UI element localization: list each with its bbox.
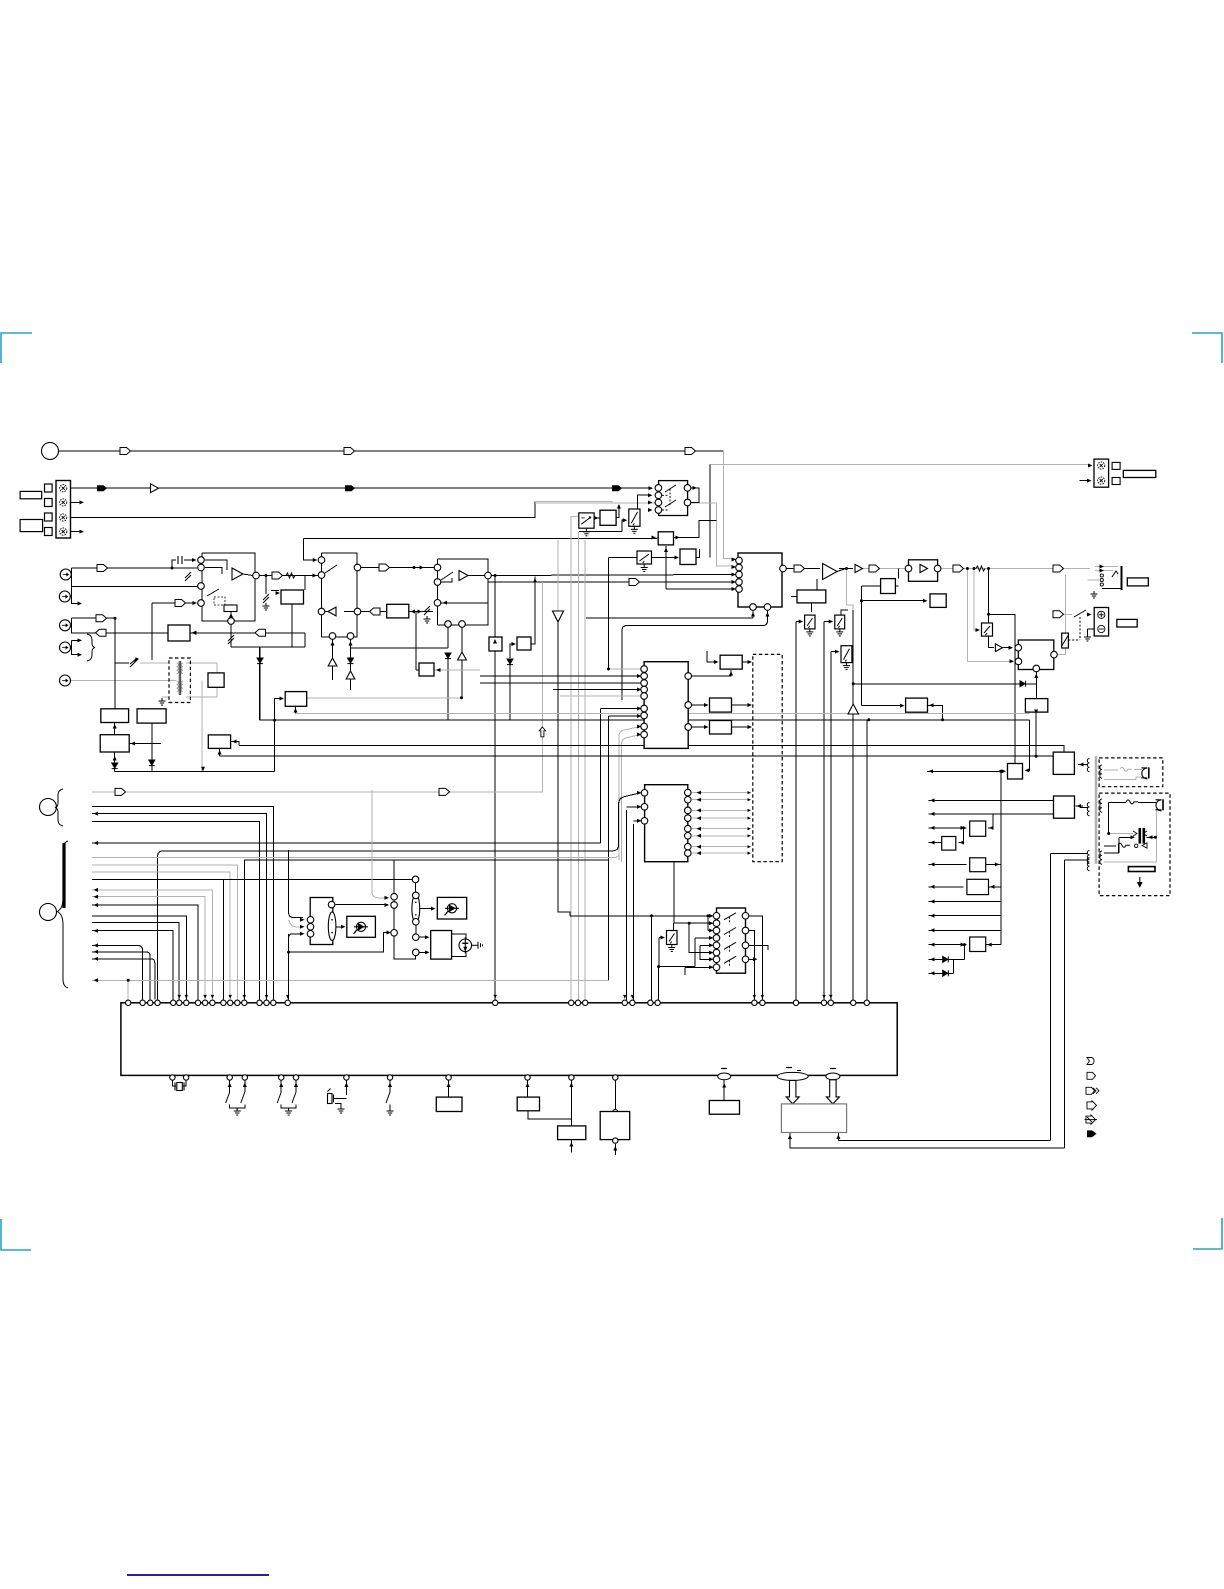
wire down: [447, 656, 449, 720]
crop mark top-left: [1, 333, 32, 363]
wire down: [600, 709, 602, 844]
triangle down: [553, 611, 564, 622]
buffer up: [346, 671, 355, 679]
wire main R: [488, 581, 735, 583]
ladder wire 7: [929, 901, 1001, 903]
wire: [420, 936, 429, 938]
wire out stub: [749, 958, 756, 960]
arrowhead: [569, 1083, 573, 1088]
arrowhead: [203, 995, 206, 999]
board pin: [622, 1000, 627, 1005]
wire: [1118, 837, 1120, 853]
wire: [244, 1080, 246, 1092]
arrowhead: [94, 957, 99, 961]
relay coil: [1062, 633, 1069, 648]
junction: [657, 965, 660, 968]
wire grey feed: [535, 502, 612, 504]
legend arrow 3: [1086, 1087, 1099, 1094]
wire: [480, 682, 641, 684]
wire stub bus: [92, 952, 150, 1000]
arrowhead: [78, 653, 83, 657]
arrowhead: [989, 826, 994, 830]
arrowhead: [1100, 565, 1105, 569]
wire: [344, 611, 354, 613]
wire: [304, 539, 317, 561]
junction: [413, 566, 416, 569]
wire: [289, 933, 390, 953]
wire: [70, 587, 71, 597]
block L5: [970, 858, 986, 872]
board pin: [221, 1000, 226, 1005]
arrowhead: [623, 518, 628, 522]
node: [228, 618, 235, 625]
ground: [263, 603, 270, 610]
wire bus: [92, 807, 273, 1000]
arrowhead: [631, 995, 634, 999]
wire stub: [684, 967, 686, 975]
board pin: [648, 1000, 653, 1005]
wire bus: [244, 860, 608, 1000]
junction: [265, 574, 268, 577]
pin out: [685, 843, 692, 850]
wire: [616, 855, 619, 858]
arrowhead: [709, 936, 714, 940]
arrowhead: [648, 501, 653, 505]
wire grey: [186, 663, 217, 673]
node: [391, 930, 398, 937]
wire: [928, 705, 943, 720]
wire down: [988, 569, 990, 615]
wire: [609, 557, 638, 559]
node out: [485, 572, 492, 579]
wire: [692, 726, 708, 728]
wire: [420, 908, 434, 910]
wire grey down: [201, 681, 203, 772]
wire down: [291, 604, 293, 647]
wire grey: [289, 920, 303, 927]
arrowhead: [788, 1135, 792, 1140]
wire: [695, 937, 712, 939]
hollow arrow left: [1142, 843, 1147, 848]
wire: [692, 670, 731, 676]
junction: [973, 567, 976, 570]
arrowhead: [748, 791, 752, 794]
wire grey long: [584, 540, 586, 1002]
node: [412, 876, 419, 883]
arrowhead: [349, 641, 353, 646]
wire down: [626, 810, 628, 1000]
ground: [234, 1108, 241, 1115]
junction: [650, 914, 653, 917]
arrowhead: [276, 591, 281, 595]
block xtal2: [517, 637, 531, 650]
wire: [824, 621, 832, 623]
commutator oval: [412, 895, 420, 923]
wire long: [220, 755, 1054, 757]
wire: [231, 742, 239, 746]
transformer coils: [177, 661, 184, 695]
ladder wire 12: [929, 972, 954, 974]
arrowhead: [930, 841, 935, 845]
wire: [416, 669, 419, 671]
pin2: [736, 564, 743, 571]
arrowhead: [617, 504, 621, 509]
triangle up: [848, 704, 859, 714]
node: [318, 572, 325, 579]
wire: [656, 538, 658, 539]
arrowhead: [1148, 835, 1153, 839]
switch SM ground: [668, 945, 675, 952]
board pin bottom: [170, 1075, 175, 1080]
wire grey: [186, 687, 217, 697]
crop mark top-right: [1192, 333, 1222, 363]
dashed transformer box: [169, 658, 190, 703]
wire: [528, 1111, 571, 1119]
pin: [641, 818, 648, 825]
mode switch matrix: [717, 908, 746, 973]
junction: [1035, 755, 1038, 758]
wire: [115, 662, 129, 664]
arrowhead: [178, 995, 181, 999]
label box: [20, 491, 42, 498]
switch arm: [665, 500, 676, 507]
dashed link: [662, 494, 668, 496]
LED box 2: [437, 897, 466, 919]
diode: [445, 653, 451, 659]
block T1: [1025, 699, 1047, 713]
arrowhead: [1087, 479, 1092, 483]
board pin: [242, 1000, 247, 1005]
wire bus: [92, 822, 260, 1000]
wire: [271, 590, 279, 592]
wire: [732, 726, 752, 728]
signal arrow: [953, 565, 964, 572]
wire grey: [692, 817, 750, 819]
wire long down: [823, 622, 825, 1003]
node: [413, 919, 420, 926]
wire: [289, 850, 303, 918]
dashed link: [729, 917, 731, 924]
switch S1 ground: [631, 526, 638, 533]
dashed link: [662, 509, 668, 511]
wire: [658, 938, 660, 967]
wire: [409, 611, 433, 613]
diode: [257, 658, 263, 664]
wire: [441, 578, 452, 582]
system control board: [121, 1003, 897, 1076]
wire grey: [557, 540, 559, 611]
switch arm: [207, 589, 219, 596]
speaker bracket: [1121, 566, 1123, 590]
arrowhead: [664, 548, 668, 553]
signal arrow: [869, 565, 880, 572]
pin oval minus: [718, 1069, 731, 1080]
block M: [906, 698, 928, 712]
wire bus: [92, 878, 416, 880]
buffer amp: [151, 484, 159, 493]
wire: [986, 863, 1001, 865]
pin: [641, 686, 648, 693]
op-amp U2: [232, 568, 243, 580]
wire: [415, 883, 417, 894]
pin: [1098, 462, 1105, 469]
node: [613, 1110, 618, 1115]
board pin: [257, 1000, 262, 1005]
plug: [1141, 767, 1149, 779]
power amp U4: [823, 564, 838, 580]
node: [459, 621, 466, 628]
wire down: [509, 662, 511, 720]
arrowhead: [822, 995, 825, 999]
pin4: [736, 579, 743, 586]
wire: [1119, 836, 1133, 838]
ground: [159, 698, 166, 705]
node: [318, 557, 325, 564]
pin out: [742, 956, 749, 963]
arrowhead: [94, 929, 99, 933]
wire: [222, 879, 224, 999]
signal arrow: [344, 448, 355, 455]
coil: [1100, 765, 1102, 778]
arrowhead: [243, 1083, 247, 1088]
wire: [441, 602, 488, 604]
wire stub bus: [92, 945, 143, 999]
dashed link: [729, 960, 731, 967]
wire stub: [236, 1108, 238, 1110]
node: [413, 949, 420, 956]
wire grey to tuner pin2: [612, 503, 735, 566]
wire grey return: [1104, 809, 1157, 862]
wire grey bus: [92, 897, 205, 1000]
wire: [666, 588, 735, 590]
pin 4: [60, 528, 67, 535]
block S: [1008, 764, 1023, 780]
block sub4: [600, 1112, 630, 1140]
wire long down: [795, 622, 797, 1003]
wire: [1087, 629, 1089, 634]
wire: [1088, 628, 1098, 630]
arrowhead: [704, 703, 709, 707]
junction: [607, 668, 610, 671]
arrowhead: [637, 707, 642, 711]
wire down: [608, 558, 610, 670]
display driver block B2: [645, 785, 688, 862]
wire: [692, 704, 708, 706]
wire grey up: [619, 727, 641, 861]
wire bus: [92, 916, 186, 999]
arrowhead: [185, 995, 188, 999]
arrowhead: [1034, 674, 1038, 679]
wire: [700, 945, 713, 959]
switch S1: [629, 509, 640, 526]
wire: [219, 748, 221, 756]
arrowhead: [294, 1083, 298, 1088]
arrowhead: [697, 808, 702, 812]
wire bus rounded: [158, 793, 641, 1000]
mixer U3: [738, 553, 782, 607]
node: [329, 633, 336, 640]
pin: [641, 680, 648, 687]
wire grey: [169, 680, 176, 682]
arrowhead: [1010, 659, 1015, 663]
wire: [862, 705, 904, 707]
diode: [112, 763, 118, 769]
pin: [713, 956, 720, 963]
switch SA ground: [806, 629, 813, 636]
ground: [424, 616, 431, 623]
wire: [927, 770, 1003, 772]
wire: [708, 930, 713, 932]
pin: [641, 804, 648, 811]
motor drive block: [310, 898, 333, 945]
pin: [641, 705, 648, 712]
block bias: [797, 590, 826, 603]
arrowhead: [613, 1146, 617, 1151]
arrowhead: [732, 565, 737, 569]
wire stub: [1076, 805, 1084, 807]
wire: [275, 699, 283, 772]
wire: [570, 1080, 572, 1126]
pin: [641, 666, 648, 673]
wire bus: [92, 814, 267, 1000]
arrowhead: [748, 798, 752, 801]
wire: [791, 596, 797, 598]
return arrow: [370, 608, 381, 615]
pin: [641, 712, 648, 719]
pin3: [736, 571, 743, 578]
wire: [304, 576, 306, 591]
buffer up: [328, 658, 337, 666]
wire grey: [434, 669, 480, 671]
wire stub: [72, 639, 81, 641]
arrowhead: [732, 580, 737, 584]
junction: [688, 922, 691, 925]
wire: [336, 926, 344, 928]
arrowhead: [201, 767, 205, 772]
buffer amp (rev): [328, 607, 336, 616]
wire grey: [307, 697, 462, 699]
jack contact: [62, 624, 68, 626]
diode: [507, 659, 513, 665]
wire bus: [92, 922, 179, 999]
node: [347, 633, 354, 640]
wire: [1036, 712, 1053, 756]
board pin: [177, 1000, 182, 1005]
arrowhead: [761, 995, 764, 999]
jack L out: [60, 620, 71, 631]
arrowhead: [300, 932, 305, 936]
arrowhead: [652, 536, 657, 540]
wire grey long: [296, 713, 1030, 715]
wire stub: [1080, 764, 1088, 766]
wire digital in: [71, 680, 170, 682]
connector J1: [56, 481, 71, 539]
board pin: [148, 1000, 153, 1005]
wire: [672, 923, 674, 930]
arrowhead: [748, 852, 752, 855]
ladder wire 11: [929, 958, 965, 960]
arrowhead: [799, 620, 804, 624]
node: [198, 557, 205, 564]
pin out: [685, 807, 692, 814]
node: [354, 564, 361, 571]
wire down: [989, 614, 995, 647]
block sub5: [709, 1101, 739, 1115]
wire: [700, 944, 713, 946]
wire bus: [92, 905, 198, 999]
arrowhead: [623, 995, 626, 999]
wire grey: [1134, 768, 1142, 770]
arrowhead: [420, 566, 425, 570]
block P3: [100, 735, 129, 752]
wire: [361, 611, 369, 613]
wire: [415, 925, 417, 934]
wire: [280, 1080, 282, 1092]
signal arrow: [175, 600, 186, 607]
wire: [652, 557, 666, 559]
board pin: [655, 1000, 660, 1005]
wire stub bus: [92, 959, 155, 1000]
block2 loop: [322, 553, 358, 637]
pin: [641, 673, 648, 680]
block3 loop left: [437, 559, 439, 625]
arrowhead: [748, 725, 753, 729]
pin out: [685, 673, 692, 680]
wire: [295, 1080, 297, 1092]
brace big: [58, 841, 69, 988]
node: [613, 1138, 618, 1143]
wire: [389, 1105, 391, 1109]
arrowhead: [748, 703, 753, 707]
node: [434, 564, 441, 571]
wire: [71, 640, 72, 647]
wire grey: [1055, 613, 1072, 615]
arrowhead: [1100, 569, 1105, 573]
variable resistor: [185, 572, 191, 581]
wire: [611, 501, 613, 503]
arrowhead: [930, 885, 935, 889]
relay diag: [1062, 635, 1069, 646]
dashed link: [729, 932, 731, 939]
pin out: [742, 942, 749, 949]
wire grey: [692, 792, 750, 794]
block P2: [137, 709, 166, 723]
signal arrow: [794, 565, 805, 572]
wire: [197, 585, 201, 587]
wire: [380, 611, 387, 613]
wire stub: [1080, 480, 1091, 482]
arrowhead: [709, 943, 714, 947]
wire grey long: [570, 540, 572, 1002]
arrowhead: [80, 530, 85, 534]
arrowhead: [732, 573, 737, 577]
wire stub: [72, 648, 81, 655]
wire out stub: [749, 945, 768, 950]
meter box: [579, 513, 594, 528]
arrowhead: [533, 578, 537, 583]
arrowhead: [637, 725, 642, 729]
arrowhead: [637, 791, 642, 795]
signal arrow: [97, 565, 108, 572]
wire grey up: [1058, 575, 1066, 655]
arrowhead: [388, 1083, 392, 1088]
pin out: [1051, 651, 1058, 658]
wire grey return: [1104, 777, 1142, 779]
wire long down: [259, 647, 261, 720]
wire outputs: [691, 488, 699, 503]
board pin: [864, 1000, 869, 1005]
board pin: [760, 1000, 765, 1005]
